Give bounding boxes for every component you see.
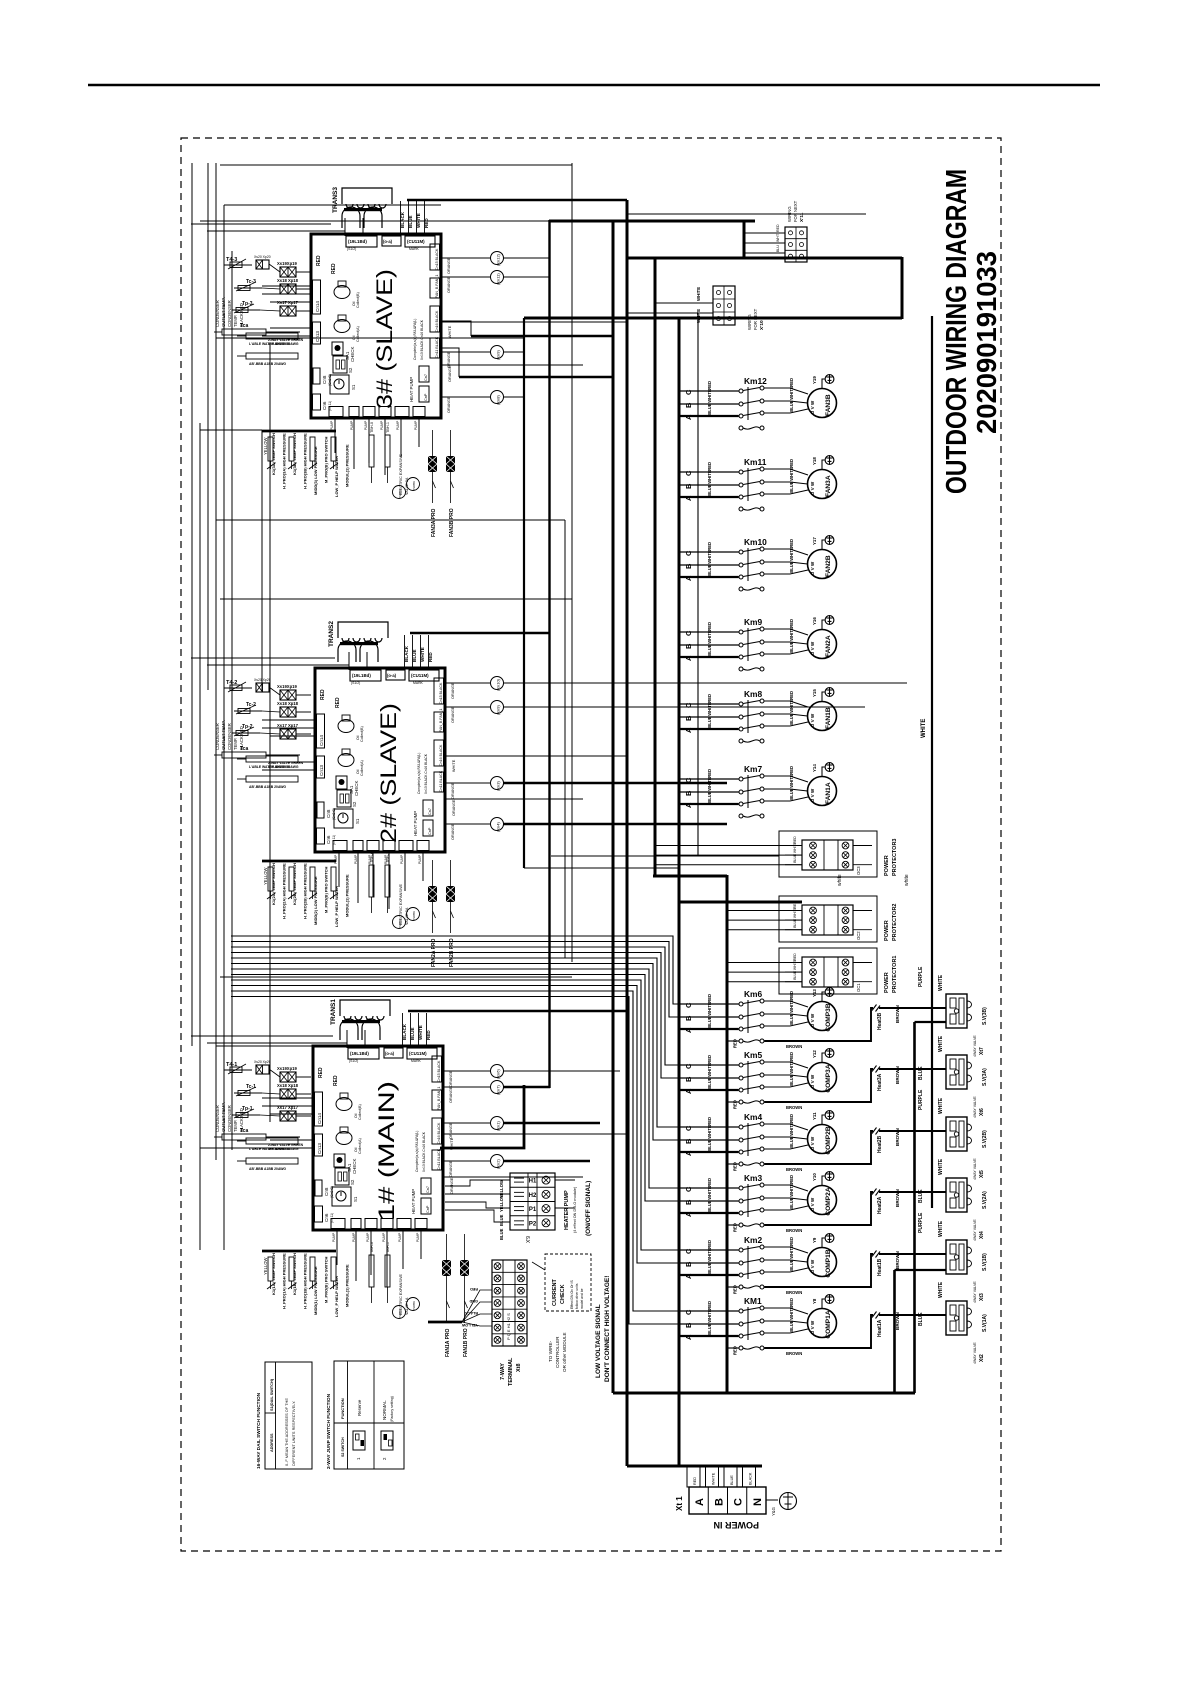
fuse FAN2A PRO: [428, 886, 437, 902]
svg-text:COMP1A: COMP1A: [825, 1310, 832, 1338]
wire: bundle vertical x200: [199, 423, 201, 1250]
svg-text:M_PRO(B) PRO SWITCH: M_PRO(B) PRO SWITCH: [324, 1256, 329, 1303]
svg-text:OC3: OC3: [856, 866, 861, 875]
svg-text:(4 effect ON DO-O module): (4 effect ON DO-O module): [573, 1186, 577, 1233]
svg-text:Cn8: Cn8: [326, 809, 331, 818]
protection relay cluster unit 1: [262, 1250, 336, 1253]
svg-text:TO WIRE-: TO WIRE-: [548, 1340, 553, 1362]
svg-text:B: B: [684, 715, 693, 721]
terminal block Xt5 solenoid valve S.V(2B): [946, 1117, 972, 1151]
svg-text:CHECK: CHECK: [560, 1284, 566, 1304]
svg-text:Y9: Y9: [812, 1237, 817, 1243]
svg-text:Cn11 BLACK: Cn11 BLACK: [437, 1148, 441, 1170]
svg-text:Cn6: Cn6: [326, 835, 331, 844]
svg-text:PUMP: PUMP: [354, 855, 358, 864]
svg-text:RED: RED: [789, 1298, 794, 1307]
current check dashed box: [545, 1254, 591, 1311]
svg-text:A: A: [684, 414, 693, 420]
svg-text:PW/BK: PW/BK: [398, 1309, 402, 1318]
svg-text:RED: RED: [707, 769, 712, 778]
wire WHITE to X10 lower: [627, 312, 713, 314]
relay MIDD(2): [310, 867, 315, 891]
wire WHITE to X10: [655, 302, 713, 304]
svg-text:S.V(1B): S.V(1B): [982, 1253, 988, 1271]
wire: trunk vertical x902: [901, 257, 904, 319]
svg-text:MARK: MARK: [411, 1059, 422, 1063]
svg-text:HEAT PUMP: HEAT PUMP: [411, 1189, 416, 1214]
svg-text:RED: RED: [789, 691, 794, 700]
svg-text:HEAT PUMP: HEAT PUMP: [409, 377, 414, 402]
board top edge connectors: [350, 670, 381, 681]
connector Xs19/Xp19: [280, 1072, 296, 1082]
svg-text:S.V(2B): S.V(2B): [982, 1130, 988, 1148]
wires to heater pump: [445, 1180, 510, 1186]
svg-text:BLUE: BLUE: [707, 791, 712, 803]
svg-text:HEATER PUMP: HEATER PUMP: [564, 1190, 570, 1230]
svg-text:Xt7: Xt7: [979, 1047, 985, 1055]
wires from board bottom edge: [334, 417, 336, 453]
svg-text:PW/BK: PW/BK: [412, 1301, 416, 1310]
svg-text:OC2: OC2: [856, 931, 861, 940]
svg-text:Xs20 Xp20: Xs20 Xp20: [254, 255, 271, 259]
svg-text:CHECK: CHECK: [354, 781, 359, 796]
wire: bundle vertical x270: [269, 345, 271, 1122]
svg-text:WHITE: WHITE: [707, 630, 712, 644]
svg-text:CURRENT: CURRENT: [552, 1278, 558, 1306]
wire: top link y205: [224, 204, 441, 206]
svg-text:BLUE: BLUE: [707, 1139, 712, 1151]
svg-text:WHITE: WHITE: [707, 702, 712, 716]
svg-text:4WAY VALVE: 4WAY VALVE: [973, 1096, 977, 1118]
svg-text:YELLOW: YELLOW: [461, 1323, 478, 1327]
svg-text:OC1: OC1: [856, 983, 861, 992]
svg-text:Y15: Y15: [812, 689, 817, 697]
svg-text:Complete(a,s(a) FA'L&FA(L): Complete(a,s(a) FA'L&FA(L): [413, 319, 417, 360]
svg-text:(Kn9): (Kn9): [496, 350, 501, 360]
svg-text:WHITE: WHITE: [938, 1035, 944, 1052]
wires from board right edge: [445, 755, 627, 757]
svg-text:Complete(a,s(a) FA'L&FA(L): Complete(a,s(a) FA'L&FA(L): [417, 753, 421, 794]
svg-text:(o-a): (o-a): [383, 239, 393, 244]
svg-text:PROTECTOR1: PROTECTOR1: [892, 956, 898, 994]
svg-text:CONDENSER: CONDENSER: [215, 1105, 220, 1132]
contactor Km3 with compressor motor COMP2A: [679, 1172, 946, 1233]
wire: power-in feed y1466: [627, 1465, 762, 1468]
svg-text:P2: P2: [529, 1221, 537, 1227]
contactor Km11 with fan motor FAN3A: [679, 456, 837, 511]
terminal block Xt2 solenoid valve S.V(1A): [946, 1301, 972, 1335]
svg-text:Collect(A): Collect(A): [358, 1138, 362, 1154]
svg-text:FAN2B PRO: FAN2B PRO: [449, 938, 455, 967]
svg-text:BLUE: BLUE: [789, 1136, 794, 1148]
wire: board3 feed y200: [407, 199, 627, 202]
svg-text:7-WAY: 7-WAY: [500, 1363, 506, 1380]
svg-text:B: B: [684, 1322, 693, 1328]
svg-text:FAN_B FAN_1: FAN_B FAN_1: [435, 275, 439, 298]
svg-text:M_PRO(B) PRO SWITCH: M_PRO(B) PRO SWITCH: [324, 436, 329, 483]
svg-text:PW/BK: PW/BK: [412, 911, 416, 920]
svg-text:S2: S2: [348, 367, 353, 373]
valve coil PW/BK B: [407, 478, 420, 491]
switch SA1 CHECK: [334, 1154, 345, 1167]
svg-text:BLUE: BLUE: [707, 716, 712, 728]
svg-text:Y17: Y17: [812, 537, 817, 545]
connector Cn8: [313, 368, 320, 384]
svg-text:TBH-0: TBH-0: [370, 852, 374, 863]
svg-text:Cn14: Cn14: [317, 1113, 322, 1124]
svg-text:WHITE: WHITE: [696, 287, 701, 301]
svg-text:B: B: [684, 1138, 693, 1144]
contactor Km6 with compressor motor COMP3B: [679, 988, 946, 1049]
svg-text:Cn15 BLACK: Cn15 BLACK: [435, 248, 439, 270]
wire: trunk horizontal y258: [627, 257, 902, 260]
svg-text:A: A: [684, 1027, 693, 1033]
svg-text:Cn16 BLACK: Cn16 BLACK: [437, 1122, 441, 1144]
svg-text:BROWN: BROWN: [895, 1311, 900, 1330]
connector Xs19/Xp19: [280, 690, 296, 700]
wire: protector feed y902: [679, 901, 802, 904]
svg-text:RED: RED: [707, 1178, 712, 1187]
rotary switch S1: [330, 375, 349, 394]
svg-text:C: C: [684, 389, 693, 395]
svg-text:RED: RED: [318, 1067, 324, 1078]
wire: thick corner x524 to board1: [440, 1085, 524, 1148]
wire and node (Kn9): [445, 706, 491, 708]
svg-text:Tca: Tca: [240, 1128, 248, 1134]
svg-text:YELLOW: YELLOW: [263, 437, 268, 455]
svg-text:WHITE: WHITE: [789, 1306, 794, 1320]
wires into board left connectors: [262, 1097, 313, 1099]
rotary switch S1: [334, 809, 353, 828]
svg-text:Collect(B): Collect(B): [356, 292, 360, 308]
contactor KM1 with compressor motor COMP1A: [679, 1295, 946, 1356]
svg-text:Xt4: Xt4: [979, 1231, 985, 1239]
svg-text:(Kn7): (Kn7): [496, 1085, 501, 1095]
svg-text:CHECK: CHECK: [352, 1159, 357, 1174]
svg-text:Km11: Km11: [744, 457, 767, 467]
svg-text:FAN_B FAN_1: FAN_B FAN_1: [437, 1087, 441, 1110]
svg-text:BROWN: BROWN: [895, 1065, 900, 1084]
connector X'11 (wiring for next): [785, 227, 807, 262]
wire: mid vertical x698: [697, 313, 699, 856]
svg-text:DON'T CONNECT HIGH VOLTAGE!: DON'T CONNECT HIGH VOLTAGE!: [604, 1276, 611, 1382]
wire and node (Kn11): [441, 276, 491, 278]
svg-text:(Kn10): (Kn10): [496, 678, 501, 691]
svg-text:RED: RED: [789, 766, 794, 775]
board right edge connectors: [430, 244, 440, 270]
svg-text:Xn10 BLACK Cn16 BLACK: Xn10 BLACK Cn16 BLACK: [420, 319, 424, 360]
svg-text:RED: RED: [789, 619, 794, 628]
POWER PROTECTOR2: [779, 896, 877, 942]
svg-text:M_PRO(B) PRO SWITCH: M_PRO(B) PRO SWITCH: [324, 866, 329, 913]
svg-text:Y11: Y11: [812, 1112, 817, 1120]
svg-text:RED: RED: [707, 622, 712, 631]
svg-text:H_PRO(1B) HIGH PRESSURE: H_PRO(1B) HIGH PRESSURE: [303, 1253, 308, 1309]
svg-text:WHITE: WHITE: [707, 1002, 712, 1016]
rotary switch S1: [332, 1187, 351, 1206]
svg-text:B: B: [684, 1076, 693, 1082]
wire: bundle vertical x232: [231, 251, 233, 1150]
svg-text:PUMP: PUMP: [364, 421, 368, 430]
svg-text:Tp-1: Tp-1: [242, 1106, 253, 1112]
svg-text:Km6: Km6: [744, 989, 762, 999]
terminal block Xt6 solenoid valve S.V(3A): [946, 1055, 972, 1089]
valve coil PW/BK A: [393, 1306, 406, 1319]
svg-text:RED: RED: [789, 1237, 794, 1246]
buzzer symbol 1: [338, 720, 354, 733]
board top edge connectors: [348, 1048, 379, 1059]
svg-text:H_PRO(3B) HIGH PRESSURE: H_PRO(3B) HIGH PRESSURE: [303, 433, 308, 489]
svg-text:(Kn9): (Kn9): [496, 705, 501, 715]
dashed border frame: [181, 138, 1001, 1551]
valve coil PW/BK A: [393, 486, 406, 499]
svg-text:U V W: U V W: [810, 1320, 815, 1334]
switch SA1 CHECK: [332, 342, 343, 355]
svg-text:U V W: U V W: [810, 641, 815, 655]
fuse FAN1A PRO: [442, 1260, 451, 1276]
svg-text:BLUE: BLUE: [707, 403, 712, 415]
svg-text:BLUE: BLUE: [707, 644, 712, 656]
svg-text:PUMP: PUMP: [366, 1233, 370, 1242]
svg-text:H_PRO(2A) HIGH PRESSURE: H_PRO(2A) HIGH PRESSURE: [282, 863, 287, 919]
svg-text:WHITE: WHITE: [789, 627, 794, 641]
wire: power trunk vertical x679 (phase bus): [678, 318, 681, 1466]
svg-text:Y18: Y18: [812, 457, 817, 465]
svg-text:Cn15 BLACK: Cn15 BLACK: [439, 682, 443, 704]
svg-text:PURPLE: PURPLE: [918, 966, 924, 987]
wire: trunk horizontal y318: [524, 317, 902, 320]
svg-text:U V W: U V W: [810, 713, 815, 727]
svg-text:Xn10 BLACK Cn16 BLACK: Xn10 BLACK Cn16 BLACK: [424, 753, 428, 794]
wires into board left connectors: [262, 719, 315, 721]
svg-text:Collect(A): Collect(A): [360, 760, 364, 776]
PCB board 3# (SLAVE): [311, 234, 441, 418]
wire: thick feed to Xt8 y1322: [428, 1321, 462, 1324]
svg-text:WIRING: WIRING: [747, 314, 752, 330]
svg-text:RED: RED: [789, 378, 794, 387]
POWER PROTECTOR3: [779, 831, 877, 877]
svg-text:BLUE: BLUE: [789, 481, 794, 493]
svg-text:RED: RED: [789, 991, 794, 1000]
wire and node (Kn6): [443, 1070, 491, 1072]
svg-text:U V W: U V W: [810, 481, 815, 495]
svg-text:B: B: [684, 1199, 693, 1205]
svg-text:Cn8: Cn8: [324, 1187, 329, 1196]
fuse FAN3A PRO: [428, 456, 437, 472]
wire and node (Kn4): [445, 823, 491, 825]
wire: compressor feeder staircase: [231, 936, 679, 1004]
svg-text:Collect(B): Collect(B): [360, 726, 364, 742]
svg-text:RED: RED: [333, 1075, 339, 1086]
valve coil PW/BK A: [393, 916, 406, 929]
svg-text:WHITE: WHITE: [707, 1309, 712, 1323]
svg-text:TRANS3: TRANS3: [332, 187, 339, 213]
svg-text:Y8: Y8: [812, 1298, 817, 1304]
svg-text:C: C: [684, 1309, 693, 1315]
svg-text:WHITE: WHITE: [921, 719, 927, 738]
svg-text:KM1: KM1: [744, 1296, 762, 1306]
connector Cn14: [315, 1092, 323, 1126]
svg-text:C: C: [684, 470, 693, 476]
svg-text:BLUE: BLUE: [789, 641, 794, 653]
svg-text:FAN2A: FAN2A: [825, 635, 832, 657]
svg-text:(Kn11): (Kn11): [496, 273, 501, 285]
svg-text:PUMP: PUMP: [418, 855, 422, 864]
svg-text:CHECK: CHECK: [350, 347, 355, 362]
connector Xs17/Xp17: [280, 306, 296, 316]
svg-text:FAN3A PRO: FAN3A PRO: [431, 508, 437, 537]
svg-text:MIDD(3) LOW PRESSURE: MIDD(3) LOW PRESSURE: [313, 446, 318, 495]
thermistor TBH-1: [385, 865, 390, 897]
svg-text:BROWN: BROWN: [786, 1351, 802, 1356]
buzzer symbol 2: [338, 754, 354, 767]
svg-text:Collect(B): Collect(B): [358, 1104, 362, 1120]
svg-text:BLUE: BLUE: [499, 1228, 504, 1240]
relay K1(3B): [289, 437, 294, 461]
svg-text:U V W: U V W: [810, 400, 815, 414]
switch S2: [337, 790, 351, 807]
wire and node (Kn12): [441, 257, 491, 259]
svg-text:(Kn12): (Kn12): [496, 253, 501, 266]
connector Cn8: [315, 1180, 322, 1196]
svg-text:RED: RED: [707, 542, 712, 551]
svg-text:(Kn4): (Kn4): [496, 822, 501, 832]
svg-text:S2 SWITCH: S2 SWITCH: [341, 1437, 345, 1457]
svg-text:Y19: Y19: [812, 376, 817, 384]
wire: board3 thick link y377: [459, 376, 613, 378]
svg-text:S1: S1: [353, 1196, 358, 1202]
wire: link y1148: [200, 1147, 313, 1149]
svg-text:TEMP.: TEMP.: [233, 315, 238, 327]
svg-text:RED: RED: [707, 994, 712, 1003]
svg-text:BLUE: BLUE: [789, 561, 794, 573]
svg-text:Xt 1: Xt 1: [675, 1496, 684, 1511]
svg-text:Y&G: Y&G: [771, 1507, 776, 1516]
svg-text:C: C: [684, 1248, 693, 1254]
bundle corner wires: [191, 1035, 333, 1037]
svg-text:Km10: Km10: [744, 537, 767, 547]
svg-text:ELECTRIC EXPANSIVE: ELECTRIC EXPANSIVE: [399, 883, 403, 925]
svg-text:TRANS1: TRANS1: [330, 999, 337, 1025]
bundle corner wires: [191, 223, 331, 225]
svg-text:Reserve: Reserve: [357, 1399, 362, 1416]
svg-text:OUTLET TEMP.: OUTLET TEMP.: [221, 297, 226, 327]
wire: link y1046: [216, 1045, 313, 1047]
contactor Km8 with fan motor FAN1B: [679, 688, 837, 743]
buzzer symbol 1: [336, 1098, 352, 1111]
svg-text:BLUE: BLUE: [707, 1200, 712, 1212]
relay LOW_P: [331, 1257, 336, 1281]
svg-text:K1(3B) TEMP SWITCH: K1(3B) TEMP SWITCH: [292, 433, 297, 475]
svg-text:FAN3A: FAN3A: [825, 475, 832, 497]
svg-text:POWER: POWER: [884, 972, 890, 993]
svg-text:TEMP.: TEMP.: [233, 1120, 238, 1132]
svg-text:16-WAY DAIL SWITCH FUNCTION: 16-WAY DAIL SWITCH FUNCTION: [256, 1392, 262, 1469]
svg-text:(S1/2): (S1/2): [351, 681, 360, 685]
contactor Km10 with fan motor FAN2B: [679, 536, 837, 591]
svg-text:Heat2A: Heat2A: [877, 1196, 883, 1214]
buzzer symbol 2: [334, 320, 350, 333]
wires into board left connectors: [262, 285, 311, 287]
svg-text:FAN1B: FAN1B: [825, 707, 832, 729]
svg-text:Xs19Xp19: Xs19Xp19: [277, 261, 297, 266]
svg-text:FAN3B: FAN3B: [825, 394, 832, 416]
svg-text:Xs20 Xp20: Xs20 Xp20: [254, 1060, 271, 1064]
thick feed bar above board: [408, 1010, 627, 1013]
svg-text:Xs17 Xp17: Xs17 Xp17: [277, 1105, 299, 1110]
buzzer symbol 2: [336, 1132, 352, 1145]
connector Xs18/Xp18: [280, 707, 296, 717]
svg-text:BLUE: BLUE: [707, 484, 712, 496]
wire and node (Kn8): [441, 396, 491, 398]
svg-text:WHITE: WHITE: [789, 386, 794, 400]
wire: mid trunk vertical x550: [548, 220, 550, 1088]
svg-text:LOW_P HELP WATER: LOW_P HELP WATER: [334, 456, 339, 497]
svg-text:Cn6: Cn6: [324, 1213, 329, 1222]
svg-text:WHITE: WHITE: [707, 550, 712, 564]
connector Xs18/Xp18: [280, 284, 296, 294]
svg-text:ORANGE: ORANGE: [449, 1160, 453, 1177]
svg-text:ORANGE: ORANGE: [449, 1070, 453, 1087]
buzzer symbol 1: [334, 286, 350, 299]
wire: mid trunk vertical x524: [523, 318, 525, 868]
connector Cn13: [317, 756, 325, 778]
svg-text:P Q E H1 H2 S: P Q E H1 H2 S: [506, 1313, 511, 1340]
svg-text:CnP: CnP: [428, 827, 432, 835]
relay MIDD(1): [310, 1257, 315, 1281]
svg-text:202090191033: 202090191033: [971, 251, 1002, 434]
svg-text:TRANS2: TRANS2: [328, 621, 335, 647]
svg-text:BROWN: BROWN: [895, 1127, 900, 1146]
svg-text:Heat1A: Heat1A: [877, 1319, 883, 1337]
svg-text:S2: S2: [350, 1179, 355, 1185]
svg-text:RED: RED: [470, 1287, 478, 1291]
svg-text:S.V(3A): S.V(3A): [982, 1068, 988, 1086]
wires from board right edge: [441, 321, 627, 323]
connector Cn13: [315, 1134, 323, 1156]
svg-text:(Factory setting): (Factory setting): [390, 1396, 394, 1422]
svg-text:Cn16 BLACK: Cn16 BLACK: [439, 744, 443, 766]
svg-text:C: C: [684, 1002, 693, 1008]
relay K1(2A): [268, 867, 273, 891]
dip switch icon 1: [353, 1431, 365, 1450]
POWER PROTECTOR1: [779, 948, 877, 994]
connector Cn8: [317, 802, 324, 818]
PCB board 1# (MAIN): [313, 1046, 443, 1230]
svg-text:WHITE: WHITE: [938, 1158, 944, 1175]
protection relay cluster unit 2: [262, 860, 336, 863]
svg-text:Complete(a,s(a) FA'L&FA(L): Complete(a,s(a) FA'L&FA(L): [415, 1131, 419, 1172]
svg-text:WHITE: WHITE: [452, 759, 456, 772]
svg-text:BLUE: BLUE: [707, 564, 712, 576]
svg-text:Heat3A: Heat3A: [877, 1073, 883, 1091]
svg-text:B: B: [684, 643, 693, 649]
svg-text:BLUE: BLUE: [789, 1259, 794, 1271]
wire: link y338: [216, 337, 524, 339]
svg-text:Km8: Km8: [744, 689, 762, 699]
svg-text:ORANGE: ORANGE: [451, 823, 455, 840]
svg-text:B: B: [684, 483, 693, 489]
svg-text:WHITE: WHITE: [789, 547, 794, 561]
svg-text:Km3: Km3: [744, 1173, 762, 1183]
svg-text:MIDD(2) LOW PRESSURE: MIDD(2) LOW PRESSURE: [313, 876, 318, 925]
svg-text:L'ABLE WATER BK/BN 20AWG: L'ABLE WATER BK/BN 20AWG: [249, 765, 299, 769]
contactor Km5 with compressor motor COMP3A: [679, 1049, 946, 1110]
svg-text:COMP1B: COMP1B: [825, 1249, 832, 1277]
svg-text:Km4: Km4: [744, 1112, 762, 1122]
connector Cn14: [313, 280, 321, 314]
switch S2: [333, 356, 347, 373]
